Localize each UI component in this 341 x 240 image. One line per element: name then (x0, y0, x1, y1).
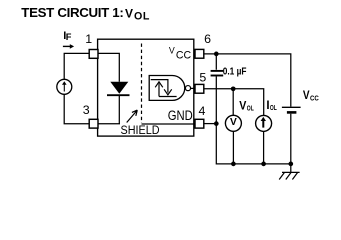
svg-text:OL: OL (270, 103, 277, 112)
svg-text:V: V (125, 7, 133, 21)
svg-text:0.1 µF: 0.1 µF (223, 67, 247, 78)
svg-text:F: F (66, 32, 72, 42)
svg-text:V: V (230, 117, 237, 128)
svg-text:CC: CC (310, 93, 319, 102)
svg-text:TEST CIRCUIT 1:: TEST CIRCUIT 1: (21, 5, 124, 20)
svg-text:OL: OL (134, 10, 150, 22)
svg-text:3: 3 (83, 103, 90, 117)
svg-text:CC: CC (176, 49, 191, 61)
svg-text:6: 6 (204, 32, 211, 46)
svg-text:1: 1 (85, 32, 92, 46)
svg-text:OL: OL (247, 103, 254, 112)
svg-text:V: V (169, 46, 175, 56)
svg-text:5: 5 (199, 71, 206, 85)
svg-text:V: V (303, 90, 310, 102)
svg-text:V: V (239, 101, 246, 113)
svg-text:4: 4 (199, 104, 206, 118)
svg-text:SHIELD: SHIELD (121, 123, 160, 137)
svg-text:GND: GND (168, 108, 193, 123)
